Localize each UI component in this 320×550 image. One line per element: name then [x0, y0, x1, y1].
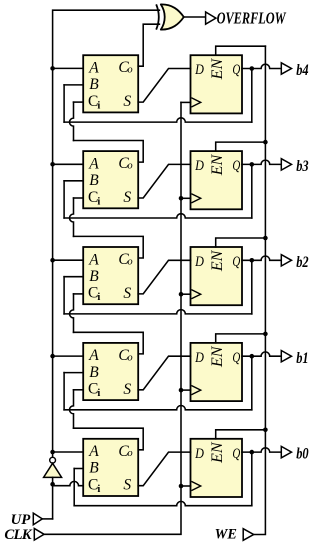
- svg-text:b0: b0: [296, 445, 308, 463]
- svg-text:A: A: [88, 60, 99, 77]
- svg-text:i: i: [97, 196, 100, 207]
- svg-text:S: S: [123, 189, 131, 206]
- svg-text:EN: EN: [209, 153, 226, 176]
- svg-text:EN: EN: [209, 58, 226, 81]
- svg-text:S: S: [123, 285, 131, 302]
- svg-text:D: D: [194, 62, 204, 78]
- svg-text:D: D: [194, 254, 204, 270]
- svg-text:B: B: [89, 460, 99, 477]
- svg-text:OVERFLOW: OVERFLOW: [217, 9, 287, 28]
- svg-text:A: A: [88, 443, 99, 460]
- svg-text:D: D: [194, 158, 204, 174]
- svg-text:Q: Q: [232, 158, 240, 174]
- svg-text:EN: EN: [209, 441, 226, 464]
- svg-text:UP: UP: [11, 512, 32, 528]
- svg-text:B: B: [89, 76, 99, 93]
- svg-text:o: o: [127, 256, 132, 267]
- svg-text:b4: b4: [296, 61, 308, 79]
- svg-text:S: S: [123, 381, 131, 398]
- svg-text:Q: Q: [232, 350, 240, 366]
- svg-text:A: A: [88, 347, 99, 364]
- svg-text:EN: EN: [209, 345, 226, 368]
- svg-text:Q: Q: [232, 254, 240, 270]
- svg-text:b3: b3: [296, 157, 308, 175]
- svg-text:o: o: [127, 161, 132, 172]
- svg-text:CLK: CLK: [4, 527, 32, 543]
- svg-text:A: A: [88, 155, 99, 172]
- svg-text:b2: b2: [296, 253, 308, 271]
- svg-text:A: A: [88, 251, 99, 268]
- svg-text:o: o: [127, 352, 132, 363]
- svg-text:o: o: [127, 448, 132, 459]
- svg-text:i: i: [97, 292, 100, 303]
- svg-text:B: B: [89, 268, 99, 285]
- svg-text:D: D: [194, 446, 204, 462]
- svg-text:b1: b1: [296, 349, 308, 367]
- svg-text:Q: Q: [232, 62, 240, 78]
- svg-text:D: D: [194, 350, 204, 366]
- svg-text:i: i: [97, 100, 100, 111]
- svg-text:S: S: [123, 477, 131, 494]
- svg-text:WE: WE: [215, 527, 237, 543]
- svg-text:B: B: [89, 364, 99, 381]
- svg-text:B: B: [89, 172, 99, 189]
- svg-text:i: i: [97, 484, 100, 495]
- svg-text:EN: EN: [209, 249, 226, 272]
- svg-text:o: o: [127, 65, 132, 76]
- svg-text:i: i: [97, 388, 100, 399]
- svg-text:S: S: [123, 93, 131, 110]
- svg-text:Q: Q: [232, 446, 240, 462]
